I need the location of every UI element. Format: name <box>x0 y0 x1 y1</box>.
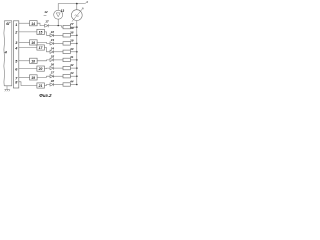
svg-text:39: 39 <box>70 38 74 42</box>
diode 17 <box>45 24 49 27</box>
svg-text:17: 17 <box>45 19 49 23</box>
row 7: wire from terminal 7 <box>19 76 30 78</box>
wire to diode <box>37 42 50 43</box>
variable AC regulator 12 <box>71 10 82 21</box>
wire to diode <box>37 23 45 25</box>
wire relay to bus <box>70 75 76 77</box>
svg-text:13: 13 <box>61 9 65 13</box>
svg-text:4: 4 <box>4 50 8 55</box>
row 8: wire from terminal 8 <box>19 82 37 86</box>
svg-text:5: 5 <box>15 60 18 64</box>
svg-text:42: 42 <box>69 63 74 67</box>
diode 33 <box>50 42 54 45</box>
wire relay to bus <box>70 51 76 53</box>
diode 38 <box>50 83 54 86</box>
generator block 4 (wavy left edge) <box>3 21 6 86</box>
arrow across regulator <box>72 8 83 22</box>
svg-text:Фиг.2: Фиг.2 <box>39 93 52 98</box>
svg-text:32: 32 <box>51 30 55 34</box>
relay 40 <box>63 50 70 53</box>
relay 27 <box>63 25 70 28</box>
wire to diode <box>44 32 50 35</box>
wire diode to relay <box>54 84 63 86</box>
diode 35 <box>50 58 54 61</box>
svg-text:44: 44 <box>69 80 74 84</box>
junction node at stem <box>58 25 59 26</box>
row 1: wire from terminal 1 <box>19 22 30 24</box>
junction node <box>76 35 78 37</box>
svg-text:41: 41 <box>69 55 74 59</box>
terminal column block <box>13 21 18 88</box>
diode 36 <box>50 67 54 70</box>
wire to diode <box>37 76 50 77</box>
wire diode to relay <box>54 67 63 69</box>
wire relay to bus <box>70 84 76 86</box>
svg-text:17: 17 <box>39 46 44 50</box>
relay 42 <box>63 66 70 69</box>
svg-text:35: 35 <box>51 54 55 58</box>
svg-text:8: 8 <box>15 80 18 84</box>
relay 43 <box>63 75 70 78</box>
wire to diode <box>37 59 50 62</box>
svg-text:16: 16 <box>31 41 35 45</box>
wire to diode <box>44 48 50 52</box>
junction node <box>76 26 78 28</box>
diode 34 <box>50 50 54 53</box>
bell indicator 13 <box>54 10 63 19</box>
svg-text:1: 1 <box>15 23 17 27</box>
block 21 <box>37 83 45 88</box>
junction node <box>76 75 78 77</box>
svg-text:12: 12 <box>44 10 48 14</box>
svg-text:38: 38 <box>70 30 74 34</box>
svg-text:39: 39 <box>70 26 74 30</box>
wire relay to bus <box>70 26 76 28</box>
svg-text:20: 20 <box>38 67 43 71</box>
wire diode to relay <box>54 51 63 53</box>
junction node <box>76 59 78 61</box>
row 4: wire from terminal 4 <box>19 47 37 49</box>
svg-text:15: 15 <box>39 31 43 35</box>
svg-text:18: 18 <box>31 59 35 63</box>
terminal numbers 1..8 <box>14 23 18 84</box>
arrow at feeder end <box>85 2 88 4</box>
svg-text:2: 2 <box>14 31 18 35</box>
ground symbol <box>4 86 10 92</box>
diode 32 <box>50 34 54 37</box>
svg-text:40: 40 <box>69 47 74 51</box>
svg-text:6Г: 6Г <box>6 22 11 26</box>
svg-text:21: 21 <box>38 84 43 88</box>
svg-text:3: 3 <box>15 41 18 45</box>
svg-text:33: 33 <box>51 38 55 42</box>
svg-text:37: 37 <box>51 71 55 75</box>
diode 37 <box>50 75 54 78</box>
relay 44 <box>63 83 70 86</box>
block 19 <box>30 75 37 80</box>
block 20 <box>37 66 45 71</box>
stem of bell 13 up / top feeder wire <box>58 4 85 10</box>
junction dot at feeder <box>76 3 78 5</box>
wire relay to bus <box>70 34 76 36</box>
block 18 <box>30 58 37 63</box>
svg-text:34: 34 <box>51 46 55 50</box>
junction node <box>76 67 78 69</box>
wire diode to relay <box>54 59 63 61</box>
stem of bell 13 down to row 1 <box>57 20 59 26</box>
svg-text:43: 43 <box>69 71 74 75</box>
relay 41 <box>63 58 70 61</box>
wire diode to relay <box>54 34 63 36</box>
relay 38 <box>63 34 70 37</box>
wire, junction with bell stem <box>48 26 63 28</box>
svg-text:36: 36 <box>51 63 55 67</box>
relay 39 <box>63 42 70 45</box>
svg-text:6: 6 <box>15 68 18 72</box>
block 15 <box>37 29 45 34</box>
drop to regulator <box>76 4 78 10</box>
row 2: wire from terminal 2 <box>19 31 37 33</box>
junction node <box>76 43 78 45</box>
wire to diode <box>44 67 50 70</box>
wire diode to relay <box>54 75 63 77</box>
svg-text:38: 38 <box>51 79 55 83</box>
row 5: wire from terminal 5 <box>19 60 30 62</box>
wire relay to bus <box>70 67 76 69</box>
row 6: wire from terminal 6 <box>19 68 37 70</box>
row 3: wire from terminal 3 <box>19 41 30 43</box>
svg-text:19: 19 <box>31 76 35 80</box>
junction node <box>76 51 78 53</box>
block 14 <box>30 21 37 26</box>
vertical bus <box>76 21 78 85</box>
wire diode to relay <box>54 42 63 44</box>
junction node <box>76 84 78 86</box>
svg-text:14: 14 <box>31 22 35 26</box>
wire relay to bus <box>70 59 76 61</box>
wire relay to bus <box>70 42 76 44</box>
block 17 <box>37 45 45 50</box>
block 16 <box>30 40 37 45</box>
wire to diode <box>44 85 50 86</box>
svg-text:4: 4 <box>14 47 18 51</box>
